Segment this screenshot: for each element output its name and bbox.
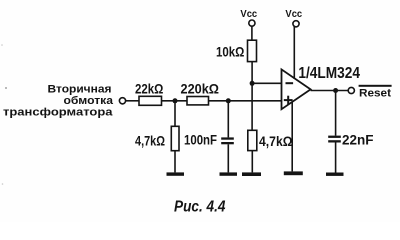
svg-text:4,7kΩ: 4,7kΩ (259, 133, 293, 149)
svg-text:трансформатора: трансформатора (3, 107, 114, 119)
wire node C to op-amp minus input (252, 82, 281, 84)
svg-text:100nF: 100nF (184, 132, 217, 148)
resistor R2 220kΩ (187, 97, 209, 105)
capacitor C1 100nF (221, 137, 234, 144)
junction node D (333, 88, 338, 93)
ground 2 (220, 172, 238, 175)
junction node B (226, 98, 231, 103)
junction node A (173, 98, 178, 103)
wire R1 to R2 (162, 100, 188, 102)
wire node A down to R3 (174, 101, 176, 127)
svg-text:10kΩ: 10kΩ (216, 44, 244, 60)
wire R5 to ground (251, 151, 253, 173)
resistor R1 22kΩ (139, 96, 162, 105)
svg-text:Vcc: Vcc (240, 8, 257, 20)
wire C1 to ground (227, 144, 229, 172)
ground 4 (284, 171, 303, 175)
resistor R3 4,7kΩ (171, 126, 179, 150)
ground 5 (326, 173, 344, 176)
op-amp U1 1/4LM324 (282, 69, 311, 109)
wire node D down to C2 (335, 91, 337, 136)
wire node B down to C1 (227, 101, 229, 138)
svg-text:Vcc: Vcc (285, 8, 302, 20)
ground 1 (167, 172, 185, 175)
svg-text:1/4LM324: 1/4LM324 (298, 65, 360, 82)
ground 3 (242, 172, 261, 176)
svg-text:обмотка: обмотка (64, 95, 114, 107)
wire R3 to ground (174, 151, 176, 173)
svg-text:22kΩ: 22kΩ (135, 80, 163, 96)
wire input to R1 (126, 100, 139, 102)
node label Reset (active low) (359, 85, 392, 100)
wire Vcc2 to op-amp power pin (293, 26, 295, 79)
wire op-amp output (311, 90, 349, 92)
input terminal circle (119, 98, 125, 104)
svg-text:Рис. 4.4: Рис. 4.4 (174, 199, 226, 216)
junction node C (250, 81, 255, 86)
svg-text:4,7kΩ: 4,7kΩ (135, 132, 165, 148)
capacitor C2 22nF (328, 136, 341, 143)
svg-text:220kΩ: 220kΩ (181, 81, 220, 97)
svg-text:Reset: Reset (359, 87, 391, 99)
wire Vcc1 to R4 (251, 26, 253, 40)
output terminal circle (348, 87, 354, 93)
svg-text:22nF: 22nF (342, 132, 374, 148)
wire C2 to ground (335, 143, 337, 173)
resistor R4 10kΩ (248, 40, 257, 61)
wire op-amp ground pin (291, 102, 293, 171)
resistor R5 4,7kΩ (248, 130, 257, 150)
wire R4 down through node C to R5 (crosses plus wire) (251, 62, 253, 131)
wire R2 to op-amp plus input (209, 100, 282, 102)
node label: Вторичная обмотка трансформатора (3, 83, 114, 118)
svg-text:Вторичная: Вторичная (48, 83, 112, 95)
